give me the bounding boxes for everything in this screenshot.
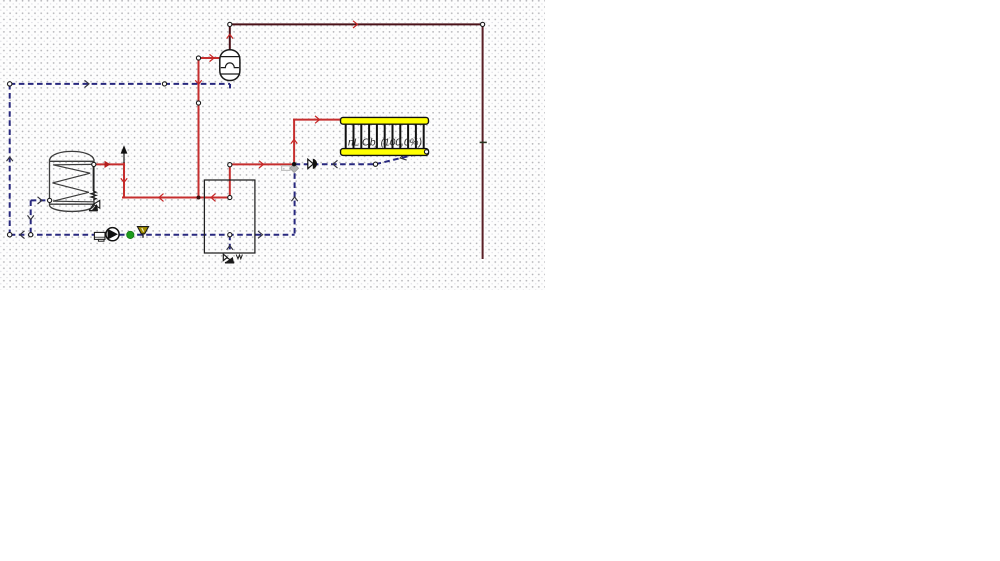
arrow right on top safety run bbox=[353, 21, 358, 28]
safety valve stem diagonal bbox=[89, 205, 93, 211]
node radiator return outlet bbox=[424, 150, 428, 154]
arrow right on bottom return mid bbox=[258, 231, 263, 238]
node on expansion drop bbox=[196, 101, 200, 105]
node boiler supply inlet bbox=[228, 195, 232, 199]
arrow right on top return bbox=[85, 80, 90, 87]
funnel stripe bbox=[142, 228, 144, 232]
arrow left on bottom red run (212) bbox=[211, 194, 216, 202]
burner flame diagonal bbox=[227, 258, 234, 262]
tank bottom seam bbox=[50, 203, 95, 205]
safety valve body triangle bbox=[93, 200, 99, 208]
wire: vessel stub vertical dark (229.8,24.4)-(229.8,49.8) bbox=[229, 24, 231, 49]
wire: tee to vessel horizontal (198.5,58)-(219.8,58) bbox=[199, 57, 220, 59]
arrow down on expansion tee vertical crossing blue bbox=[195, 80, 201, 84]
arrow left on bottom red run (160) bbox=[159, 194, 164, 202]
tank body sides bbox=[50, 160, 95, 206]
node safety top-right corner bbox=[481, 22, 485, 26]
tank top seam bbox=[50, 160, 95, 162]
wire: bottom return horizontal (9.7,234.7)-(294.6,234.7) bbox=[10, 234, 295, 236]
arrow up on vessel stub bbox=[227, 34, 233, 38]
node tank supply outlet bbox=[92, 162, 96, 166]
tank top cap bbox=[50, 151, 95, 159]
radiator top bar bbox=[341, 117, 429, 124]
radiator bottom bar bbox=[341, 149, 429, 156]
arrow right on supply horizontal bbox=[259, 161, 264, 168]
grid area bbox=[0, 0, 545, 290]
burner wedge (filled) bbox=[226, 258, 233, 262]
safety valve base bbox=[89, 210, 98, 212]
vessel body bbox=[220, 50, 240, 81]
pump rotor triangle bbox=[108, 229, 118, 240]
junction dot red tee bbox=[197, 196, 201, 200]
burner zigzag W bbox=[236, 255, 242, 259]
wire: vessel end tick down bbox=[229, 84, 231, 89]
wire: left return vertical (9.7,83.9)-(9.7,234.7) bbox=[9, 84, 11, 235]
arrow up on left return vertical bbox=[7, 157, 13, 161]
wire: bottom red horizontal (124,197.5)-(229.8,197.5) bbox=[123, 197, 230, 199]
arrow left on bottom return bbox=[20, 231, 25, 239]
wire: return diagonal to radiator (375.5,164.2)-(426.5,151.8) bbox=[376, 152, 427, 164]
safety valve outlet triangle (filled) bbox=[93, 205, 98, 210]
boiler body bbox=[204, 180, 255, 253]
check valve disc bbox=[313, 159, 317, 169]
node bottom-left return corner bbox=[8, 233, 12, 237]
node expansion tee corner bbox=[196, 56, 200, 60]
arrow right at tank outlet bbox=[105, 161, 111, 168]
safety valve spring bbox=[91, 191, 96, 200]
wire: tank outlet horizontal (93.8,164.4)-(124,164.4) bbox=[94, 163, 124, 165]
vessel lower seam bbox=[220, 73, 240, 75]
node tank stub junction bbox=[29, 233, 33, 237]
arrow up on supply riser bbox=[291, 139, 297, 143]
arrow down on tank corner drop bbox=[121, 178, 127, 182]
wire: return riser (294.6,164.2)-(294.6,234.7) bbox=[294, 164, 296, 235]
wire: supply horizontal (229.8,164.4)-(294.1,164.4) bbox=[230, 163, 294, 165]
svg-text:nL Obj (100,0%): nL Obj (100,0%) bbox=[348, 138, 422, 149]
funnel cup bbox=[137, 227, 148, 234]
check valve cone bbox=[308, 159, 314, 168]
arrow down on tank stub vertical bbox=[28, 215, 34, 219]
junction dot supply/return corner bbox=[292, 162, 296, 166]
wire: boiler riser (229.8,164.7)-(229.8,197.5) bbox=[229, 165, 231, 198]
arrow up on boiler return stub bbox=[227, 246, 233, 250]
wire: tank stub horizontal (30.7,200.4)-(49.6,200.4) bbox=[31, 199, 50, 201]
wire: supply riser to radiator (294.1,119.6)-(294.1,164.4) bbox=[293, 120, 295, 165]
node safety top-left corner bbox=[228, 22, 232, 26]
wire: right safety drop vertical dark (482.6,24.4)-(482.6,258) bbox=[482, 24, 484, 258]
wire: top safety run horizontal dark (229.8,24.4)-(482.6,24.4) bbox=[230, 23, 483, 25]
gray valve box bbox=[282, 166, 290, 171]
node boiler supply tee bbox=[228, 163, 232, 167]
tick on right safety drop bbox=[480, 141, 487, 143]
pump controller inner line bbox=[94, 236, 105, 238]
safety valve stem bbox=[92, 165, 94, 191]
node boiler return bbox=[228, 233, 232, 237]
arrow on return diagonal bbox=[400, 153, 406, 160]
tank bottom cap bbox=[50, 206, 95, 212]
node top-left return corner bbox=[8, 82, 12, 86]
vessel membrane bbox=[221, 63, 239, 68]
burner base bbox=[225, 262, 234, 264]
arrow right on radiator supply bbox=[315, 116, 320, 123]
wire: tank stub vertical (30.7,200.4)-(30.7,234.7) bbox=[30, 200, 32, 234]
arrow right on tee-to-vessel stub bbox=[210, 54, 215, 61]
wire: radiator supply horizontal (294.1,119.6)-(341,119.6) bbox=[294, 119, 341, 121]
vent arrowhead black bbox=[121, 145, 128, 153]
node on top return line bbox=[162, 82, 166, 86]
funnel stem bbox=[142, 234, 144, 238]
wire: vertical down tank corner (124,164.4)-(124,197.5) bbox=[123, 163, 125, 197]
gray valve diamond bbox=[290, 164, 299, 173]
wire: expansion tee vertical (198.5,58)-(198.5,197.5) bbox=[198, 58, 200, 198]
tank coil zigzag bbox=[53, 164, 94, 201]
arrow left on return horizontal bbox=[333, 160, 338, 168]
wire: boiler return stub vertical (229.8,234.7)-(229.8,253) bbox=[229, 235, 231, 253]
radiator fins bbox=[346, 123, 424, 150]
pump circle bbox=[106, 228, 119, 241]
vessel upper seam bbox=[220, 56, 240, 58]
burner nozzle triangle bbox=[223, 254, 227, 260]
node tank return inlet bbox=[48, 198, 52, 202]
arrow up on return riser bbox=[291, 197, 297, 201]
arrow right on tank stub bbox=[38, 197, 43, 204]
pump controller box bbox=[94, 232, 105, 239]
wire: top return horizontal (9.7,83.9)-(230,83.9) bbox=[10, 83, 230, 85]
pump controller foot bbox=[98, 239, 104, 241]
vent stem black bbox=[123, 153, 125, 164]
wire: return horizontal to check valve (294.6,164.2)-(375.5,164.2) bbox=[295, 163, 376, 165]
node on return before diagonal bbox=[373, 162, 377, 166]
